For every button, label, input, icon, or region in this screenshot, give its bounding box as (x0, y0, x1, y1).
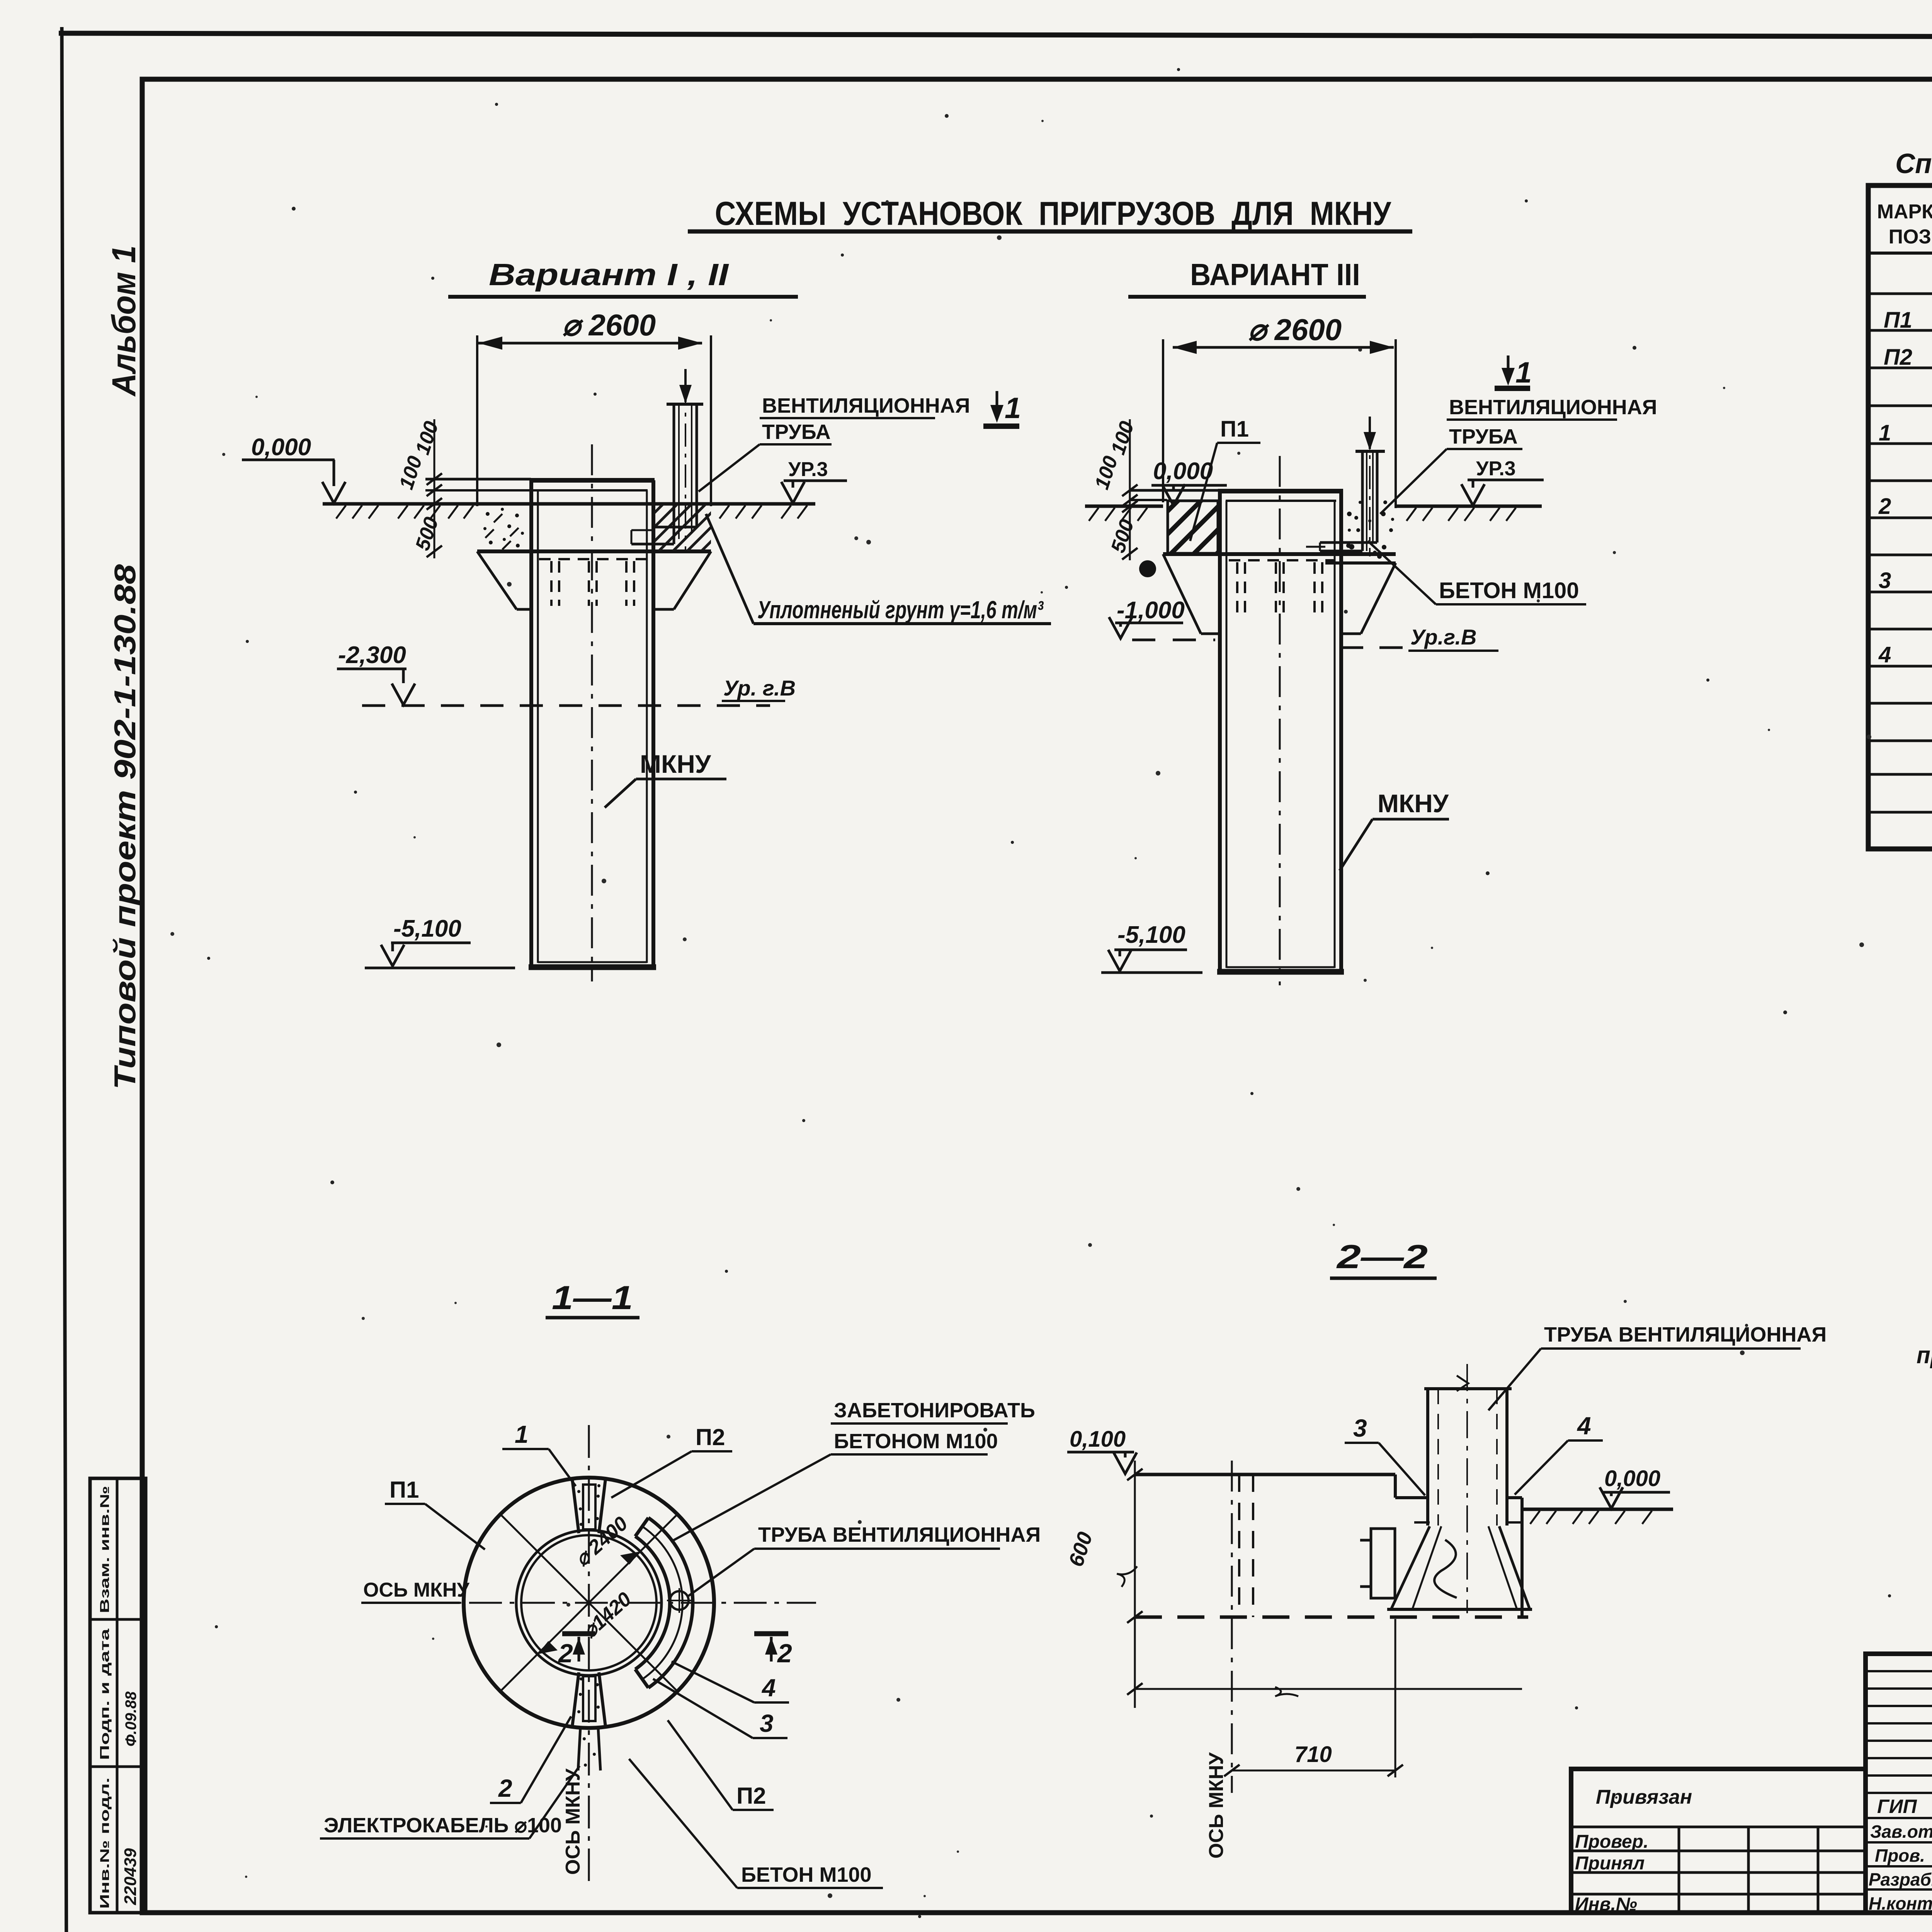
svg-text:0,000: 0,000 (1604, 1466, 1660, 1491)
label MKNU var1 (605, 750, 726, 808)
dim 2600 line (477, 308, 711, 506)
svg-text:ТРУБА: ТРУБА (1449, 425, 1518, 448)
svg-text:П2: П2 (736, 1783, 766, 1809)
svg-text:П1: П1 (1884, 308, 1912, 333)
svg-text:Ур. г.В: Ур. г.В (723, 676, 796, 700)
svg-text:2: 2 (1878, 494, 1891, 519)
funnel under pipe 2-2 (1387, 1526, 1532, 1609)
label MKNU var3 (1340, 789, 1449, 871)
small dims 100 100 500 var3 (1090, 418, 1138, 560)
svg-text:БЕТОНОМ М100: БЕТОНОМ М100 (834, 1430, 998, 1453)
svg-text:МКНУ: МКНУ (640, 750, 711, 778)
svg-text:2: 2 (498, 1774, 512, 1802)
svg-text:ВЕНТИЛЯЦИОННАЯ: ВЕНТИЛЯЦИОННАЯ (762, 394, 970, 417)
svg-text:1: 1 (1515, 356, 1532, 389)
axis lines (363, 1425, 816, 1881)
label concrete M100 var3 (1368, 541, 1586, 604)
label P1 left (385, 1477, 485, 1549)
MKNU tank var1 (529, 444, 656, 981)
label P2 bottom right (668, 1720, 774, 1810)
svg-text:-5,100: -5,100 (1117, 922, 1185, 948)
svg-text:П1: П1 (389, 1477, 419, 1503)
anchor bolts dashed var3 (1229, 560, 1335, 612)
small dims 100 100 500 var1 (395, 418, 443, 558)
svg-text:Альбом 1: Альбом 1 (105, 245, 143, 397)
vent pipe circle in plan (667, 1588, 692, 1613)
svg-text:ОСЬ МКНУ: ОСЬ МКНУ (562, 1769, 584, 1875)
svg-text:Типовой проект 902-1-130.88: Типовой проект 902-1-130.88 (108, 564, 142, 1090)
note 1 (1917, 1295, 1932, 1369)
compacted soil fill right var1 (hatched) (655, 505, 711, 551)
d1420 label (578, 1588, 636, 1643)
svg-text:БЕТОН М100: БЕТОН М100 (741, 1863, 872, 1886)
svg-text:Принял: Принял (1575, 1853, 1645, 1874)
label 4 2-2 (1515, 1412, 1603, 1495)
outer sheet border left (62, 27, 66, 1932)
spec table grid (1868, 185, 1932, 849)
label vent pipe var3 (1380, 396, 1657, 514)
svg-text:Ур.г.В: Ур.г.В (1410, 625, 1476, 649)
svg-text:⌀ 2600: ⌀ 2600 (1248, 313, 1342, 347)
anchor bolts dashed var1 (539, 559, 647, 606)
svg-text:ОСЬ МКНУ: ОСЬ МКНУ (363, 1579, 469, 1601)
cable conduit below circle (578, 1728, 600, 1770)
level mark UR.3 var3 (1461, 457, 1544, 505)
level mark 0.000 var1 (242, 434, 345, 503)
svg-text:4: 4 (761, 1674, 776, 1702)
level mark 0.000 var3 (1151, 458, 1227, 505)
slab lip lines var1 (425, 479, 538, 490)
label concrete fill (671, 1399, 1035, 1542)
dim arrows on diagonals (537, 1551, 640, 1654)
svg-text:ГИП: ГИП (1877, 1796, 1917, 1817)
svg-text:Инв.№ подл.: Инв.№ подл. (97, 1777, 112, 1909)
svg-text:УР.3: УР.3 (788, 458, 828, 481)
svg-text:Уплотненый грунт γ=1,6 т/м³: Уплотненый грунт γ=1,6 т/м³ (757, 596, 1044, 624)
left margin text: Typical project 902-1-130.88 (108, 564, 142, 1090)
svg-text:⌀ 2600: ⌀ 2600 (562, 308, 656, 342)
svg-text:3: 3 (1879, 568, 1891, 593)
level mark -5.100 var3 (1101, 922, 1202, 973)
svg-text:УР.3: УР.3 (1476, 457, 1516, 480)
section mark 2 right (754, 1634, 792, 1668)
svg-text:ОСЬ МКНУ: ОСЬ МКНУ (1205, 1752, 1228, 1859)
svg-text:П2: П2 (1884, 345, 1912, 370)
title block: left attachment table (1571, 1769, 1866, 1913)
diagonal radius lines (500, 1514, 677, 1691)
section mark 1 (right) (1495, 355, 1532, 389)
subtitle variant I,II (448, 257, 798, 297)
title block: central signature grid (1866, 1654, 1932, 1913)
P1 weight slab hatched var3 (1168, 501, 1218, 553)
inner tank circles (516, 1530, 662, 1675)
svg-text:ЗАБЕТОНИРОВАТЬ: ЗАБЕТОНИРОВАТЬ (834, 1399, 1035, 1422)
svg-text:Провер.: Провер. (1575, 1832, 1648, 1852)
svg-text:2: 2 (777, 1639, 792, 1668)
svg-text:2—2: 2—2 (1336, 1238, 1428, 1276)
title 1-1 (546, 1279, 639, 1318)
dim 710 2-2 (1224, 1619, 1403, 1777)
svg-text:Спецификация к схеме установ: Спецификация к схеме установок пригрузов… (1895, 148, 1932, 179)
svg-text:3: 3 (760, 1709, 774, 1737)
title 2-2 (1330, 1238, 1437, 1278)
spec table rows text (1878, 265, 1932, 812)
svg-text:Инв.№: Инв.№ (1575, 1894, 1637, 1915)
svg-text:-5,100: -5,100 (393, 915, 461, 942)
bottom cable channel (572, 1672, 605, 1726)
svg-text:-1,000: -1,000 (1117, 597, 1185, 624)
svg-text:ТРУБА ВЕНТИЛЯЦИОННАЯ: ТРУБА ВЕНТИЛЯЦИОННАЯ (758, 1523, 1041, 1546)
label vent pipe var1 (699, 394, 970, 492)
svg-text:Взам. инв.№: Взам. инв.№ (97, 1486, 112, 1613)
svg-text:2: 2 (558, 1639, 573, 1668)
attachment table texts (1575, 1786, 1692, 1915)
svg-text:0,000: 0,000 (1153, 458, 1213, 485)
outer sheet border top (59, 33, 1932, 38)
ground line var1 (323, 504, 815, 519)
svg-text:710: 710 (1294, 1742, 1332, 1767)
level mark 0.100 2-2 (1067, 1427, 1137, 1474)
level mark UR.3 var1 (781, 458, 847, 503)
svg-text:ПОЗ.: ПОЗ. (1889, 226, 1932, 248)
svg-text:П1: П1 (1220, 417, 1249, 442)
label axis MKNU vertical (562, 1769, 584, 1875)
pit bottom var1 (477, 549, 711, 553)
svg-text:Разраб.: Разраб. (1869, 1869, 1932, 1889)
label electric cable (320, 1766, 580, 1838)
dim 600 left 2-2 (1064, 1461, 1143, 1708)
label P2 top (611, 1424, 732, 1498)
svg-text:-2,300: -2,300 (338, 642, 406, 668)
svg-text:ЭЛЕКТРОКАБЕЛЬ ⌀100: ЭЛЕКТРОКАБЕЛЬ ⌀100 (324, 1814, 562, 1837)
MKNU tank var3 (1217, 456, 1344, 985)
label 4 (672, 1662, 789, 1702)
main title (688, 195, 1412, 232)
svg-text:пригрузов уплотненный грунт с: пригрузов уплотненный грунт с объемным в… (1917, 1342, 1932, 1369)
label 1 (pos) (502, 1420, 576, 1486)
concrete segment band right (635, 1518, 693, 1688)
svg-text:Привязан: Привязан (1596, 1786, 1692, 1808)
left margin inventory table (90, 1478, 146, 1913)
label vent pipe 2-2 (1488, 1323, 1827, 1410)
svg-text:1: 1 (515, 1420, 529, 1448)
svg-text:БЕТОН М100: БЕТОН М100 (1439, 578, 1579, 603)
d2400 label (571, 1512, 632, 1571)
outer circle (pit d2600) (464, 1478, 714, 1728)
svg-text:Вариант I , II: Вариант I , II (489, 257, 729, 292)
bottom dim line 2-2 (1135, 1687, 1522, 1696)
svg-text:МАРКА: МАРКА (1877, 201, 1932, 223)
svg-text:4: 4 (1878, 642, 1891, 667)
pit bottom var3 (1163, 554, 1396, 563)
signature grid texts (1869, 1796, 1932, 1914)
top cable channel (572, 1479, 605, 1533)
svg-text:220439: 220439 (121, 1848, 140, 1905)
svg-text:0,000: 0,000 (251, 434, 311, 461)
svg-text:МКНУ: МКНУ (1378, 789, 1449, 818)
svg-text:3: 3 (1353, 1414, 1367, 1442)
groundwater level var3 (1340, 625, 1498, 651)
label 3 (653, 1679, 787, 1738)
level mark -1.000 var3 (1109, 597, 1215, 640)
svg-text:СХЕМЫ УСТАНОВОК ПРИГРУЗОВ Д: СХЕМЫ УСТАНОВОК ПРИГРУЗОВ ДЛЯ МКНУ (715, 195, 1391, 232)
label compacted soil var1 (706, 514, 1051, 624)
ground line var3 (1085, 506, 1542, 521)
svg-text:Ф.09.88: Ф.09.88 (122, 1691, 139, 1747)
vent pipe 2-2 (1414, 1364, 1521, 1613)
label concrete M100 bottom (629, 1759, 883, 1888)
label 3 2-2 (1345, 1414, 1425, 1495)
label axis MKNU horizontal (361, 1579, 469, 1603)
svg-text:Зав.отд.: Зав.отд. (1870, 1821, 1932, 1842)
svg-text:Пров.: Пров. (1875, 1845, 1925, 1866)
svg-text:ВАРИАНТ III: ВАРИАНТ III (1190, 257, 1360, 292)
subtitle variant III (1128, 257, 1366, 297)
section mark 1 (left) (983, 391, 1021, 426)
concrete M100 fill var3 (stippled) (1346, 500, 1394, 559)
slab lip lines var3 (1130, 490, 1219, 500)
black dot marker var3 (1139, 560, 1156, 577)
label 2 bottom left (490, 1716, 571, 1803)
label P1 var3 (1190, 417, 1260, 541)
tank body 2-2 (1135, 1461, 1528, 1793)
vent pipe var3 (1306, 417, 1385, 556)
left margin text: Album 1 (105, 245, 143, 397)
compacted soil fill left var1 (483, 508, 524, 549)
groundwater level var1 (362, 676, 796, 706)
level mark -2.300 (337, 642, 415, 705)
svg-text:1—1: 1—1 (552, 1279, 633, 1316)
svg-text:ТРУБА ВЕНТИЛЯЦИОННАЯ: ТРУБА ВЕНТИЛЯЦИОННАЯ (1544, 1323, 1827, 1346)
svg-text:4: 4 (1577, 1412, 1591, 1440)
spec table title (1895, 148, 1932, 179)
svg-text:0,100: 0,100 (1070, 1427, 1126, 1452)
svg-text:Подп. и дата: Подп. и дата (97, 1628, 112, 1760)
section mark 2 inside (558, 1634, 595, 1668)
vent pipe var1 (631, 369, 703, 553)
level mark 0.000 2-2 (1600, 1466, 1670, 1509)
label vent pipe plan (689, 1523, 1041, 1596)
ground line 2-2 (1522, 1509, 1673, 1524)
dim 2600 line var3 (1163, 313, 1396, 508)
svg-text:ВЕНТИЛЯЦИОННАЯ: ВЕНТИЛЯЦИОННАЯ (1449, 396, 1657, 419)
foundation trapezoid var1 (477, 551, 711, 609)
left connection box 2-2 (1360, 1529, 1395, 1598)
svg-text:ТРУБА: ТРУБА (762, 420, 831, 444)
label axis MKNU 2-2 (1205, 1752, 1228, 1859)
svg-text:1: 1 (1879, 420, 1891, 446)
foundation trapezoid var3 (1163, 554, 1396, 634)
spec table header text (1877, 201, 1932, 248)
svg-text:П2: П2 (696, 1424, 725, 1450)
svg-text:1: 1 (1005, 392, 1021, 425)
svg-text:Н.контр.: Н.контр. (1869, 1893, 1932, 1913)
level mark -5.100 var1 (365, 915, 515, 968)
